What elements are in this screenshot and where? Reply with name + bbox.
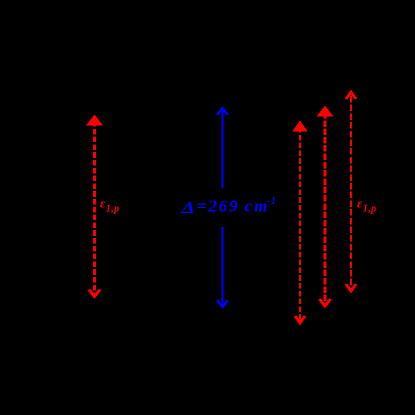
arrow T3 (right red dashed arrow C) xyxy=(346,92,356,291)
blue arrow bottom head xyxy=(217,300,228,307)
wire: arrow A shaft xyxy=(299,127,301,322)
blue arrow top head xyxy=(217,108,228,115)
arrow Delta (blue solid double-headed vertical arrow) xyxy=(217,107,228,308)
wire: arrow C shaft xyxy=(350,96,352,290)
svg-text:Δ=269cm-1: Δ=269cm-1 xyxy=(180,196,277,217)
arrow A top head xyxy=(295,123,305,130)
wire: left arrow shaft xyxy=(93,121,96,296)
arrow A bottom head xyxy=(295,316,305,323)
wire: blue arrow shaft upper segment xyxy=(221,107,223,188)
arrow C bottom head xyxy=(346,284,356,291)
arrow T2 (right red dashed arrow B, thicker) xyxy=(320,108,331,306)
wire: arrow B shaft xyxy=(324,112,327,305)
arrow C top head xyxy=(346,92,356,99)
left arrow bottom head xyxy=(89,290,100,297)
arrow E1 (left red dashed double-headed vertical arrow) xyxy=(89,117,100,297)
arrow B top head xyxy=(320,108,331,115)
left arrow top head xyxy=(89,117,100,124)
wire: blue arrow shaft lower segment xyxy=(221,227,223,308)
arrow B bottom head xyxy=(320,299,331,306)
arrow T1 (right red dashed arrow A) xyxy=(295,123,305,323)
